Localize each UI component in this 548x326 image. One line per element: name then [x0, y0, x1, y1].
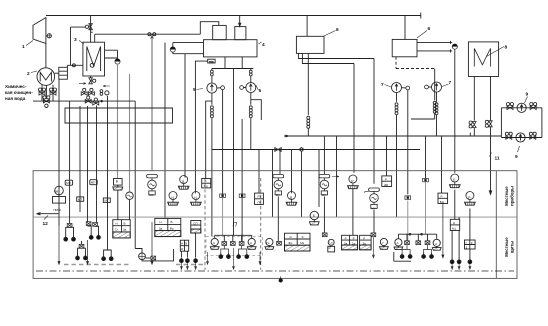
alarm dome G: [380, 238, 389, 249]
wire down from tie-in: [134, 101, 136, 248]
svg-text:Е: Е: [453, 178, 455, 182]
condensate main wire: [284, 133, 501, 138]
circulation pump 9 upper: [501, 107, 542, 109]
svg-text:Lа: Lа: [330, 241, 334, 245]
wire column E: [96, 106, 98, 223]
instrument MT box 2: [103, 198, 110, 202]
svg-text:Местные: Местные: [504, 237, 509, 257]
svg-text:ПМ10: ПМ10: [54, 208, 62, 212]
feed line riser to panel: [151, 34, 154, 171]
svg-text:9: 9: [526, 92, 529, 98]
alarm dome A/B right: [432, 239, 441, 250]
actuator dome 1: [168, 192, 179, 206]
pump 9 loop wires: [501, 108, 542, 138]
tank 6 left overflow riser: [307, 53, 309, 136]
actuator dome 2: [178, 176, 189, 190]
svg-text:В: В: [124, 222, 126, 226]
svg-text:В: В: [290, 196, 292, 200]
wires dropping to panel from pump area: [222, 90, 224, 194]
crossed box a1: [67, 224, 72, 228]
svg-text:Б: Б: [313, 214, 315, 218]
level transmitter tap wires: [165, 43, 185, 219]
svg-text:Зд: Зд: [159, 226, 163, 230]
svg-text:6: 6: [336, 27, 339, 33]
svg-text:В: В: [171, 220, 173, 224]
coil feed wire to panel: [195, 61, 207, 193]
crossed box a3: [93, 223, 98, 227]
svg-text:Мз: Мз: [300, 241, 304, 245]
deaerator vessel 4: [204, 40, 258, 57]
wire header to HX3: [90, 16, 92, 43]
svg-text:МУ: МУ: [371, 207, 375, 211]
HX2 condensate valves: [42, 85, 53, 101]
svg-text:МП: МП: [91, 181, 96, 185]
pump side taps: [221, 86, 225, 90]
connector balls under tree 1: [219, 253, 223, 258]
svg-text:ЧМ: ЧМ: [54, 189, 59, 193]
svg-text:Р: Р: [345, 237, 347, 241]
actuator dome 3: [191, 192, 202, 206]
gray dashed local line: [64, 264, 130, 266]
suction screw valves: [211, 70, 214, 76]
svg-text:РУ: РУ: [258, 195, 262, 199]
svg-text:ДБ: ДБ: [384, 183, 388, 187]
valve on HX3 steam feed: [85, 24, 92, 30]
svg-text:А: А: [397, 241, 399, 245]
wire column A: [58, 79, 60, 226]
svg-text:ная вода: ная вода: [5, 96, 26, 101]
ground mark 10: [279, 276, 282, 282]
svg-text:АЦ: АЦ: [452, 226, 457, 230]
svg-text:5: 5: [259, 88, 262, 94]
drain dashed wire: [396, 68, 435, 70]
svg-text:Зд: Зд: [123, 228, 127, 232]
wire HX3 condensate to panel: [129, 74, 131, 191]
svg-text:Г: Г: [383, 241, 385, 245]
local indicator with cross: [135, 249, 142, 253]
pump 7 discharge squiggles: [396, 93, 398, 218]
circulation pump 9 lower: [501, 137, 542, 139]
indicator table 1: [113, 220, 130, 238]
crossed box a2: [86, 222, 91, 226]
wire column D: [87, 106, 89, 222]
counter box N/AC: [450, 219, 459, 230]
wires dropping into panel: [324, 136, 441, 217]
svg-text:4: 4: [262, 42, 265, 48]
svg-text:G: G: [290, 235, 293, 239]
wire loop from indicator: [142, 249, 174, 261]
svg-text:Р: Р: [205, 179, 207, 183]
alarm tree 1 rail: [215, 235, 252, 241]
wire column C: [79, 106, 81, 212]
svg-text:Р: Р: [363, 237, 365, 241]
wire level gauge down to panel: [117, 64, 119, 178]
svg-text:3: 3: [74, 37, 77, 43]
level gauge of deaerator: [170, 47, 175, 52]
recorder stack ChM42/PM10: [53, 186, 66, 203]
svg-text:Местные: Местные: [504, 186, 509, 206]
pump 5 bypass branches: [206, 100, 262, 178]
alarm dome A/B left: [394, 239, 403, 250]
svg-text:9: 9: [515, 154, 518, 160]
svg-text:1: 1: [22, 44, 25, 50]
svg-text:А: А: [435, 242, 437, 246]
crossed box g3: [371, 233, 376, 237]
wire bend into deaerator head box: [200, 22, 219, 35]
screw valve pair: [100, 90, 103, 96]
tank 6 left: [296, 36, 324, 53]
connector balls row 3: [180, 257, 184, 262]
guard dashed box around alarm group: [206, 237, 263, 256]
condensate pump 7 (left): [392, 83, 402, 93]
svg-text:ПК: ПК: [258, 200, 262, 204]
valve on condensate header: [275, 148, 281, 152]
level indicator with skirt: [113, 179, 123, 191]
junction box with dot 3: [405, 196, 411, 199]
junction box with dot 2: [239, 194, 245, 197]
svg-text:11: 11: [495, 156, 500, 162]
svg-text:12: 12: [43, 221, 49, 227]
steam drop with arrow into head box 2: [239, 16, 241, 27]
actuator dome P: [348, 175, 359, 189]
panel frame: [33, 171, 517, 279]
svg-text:Н: Н: [116, 222, 118, 226]
heat exchanger 2 (with M coil): [37, 68, 55, 86]
svg-text:Р: Р: [468, 196, 470, 200]
HX3 right stubs to level gauge: [105, 50, 118, 59]
level gauge on HX3: [115, 59, 120, 64]
tank 6 right: [392, 39, 417, 56]
wire splits to connector pairs: [66, 227, 74, 237]
cooler 8: [468, 42, 498, 77]
svg-text:ЦТ: ЦТ: [328, 246, 332, 250]
union circles on feed line: [148, 33, 151, 36]
alarm dome A left: [210, 238, 219, 249]
cooler tubes down: [474, 77, 490, 121]
svg-text:МП: МП: [66, 181, 71, 185]
regulator tables 4: [342, 235, 358, 250]
alarm dome A right: [247, 238, 256, 249]
svg-text:Р: Р: [385, 178, 387, 182]
junction box with dot 4: [423, 178, 429, 181]
deaerator head box 1: [213, 25, 227, 39]
panel label column wire: [495, 171, 497, 279]
svg-text:7: 7: [449, 80, 452, 86]
flow table 3: [285, 233, 311, 251]
valve under HX3: [89, 78, 96, 84]
down arrows tree 1: [207, 248, 262, 269]
svg-text:Фр: Фр: [170, 226, 174, 230]
crossed box g1: [277, 241, 282, 245]
transmitter stack 2: [273, 175, 284, 195]
svg-text:Р: Р: [353, 237, 355, 241]
svg-text:7: 7: [381, 82, 384, 88]
down arrows to local line: [58, 226, 60, 264]
wire turbine to HX2: [45, 44, 47, 68]
svg-text:МУ: МУ: [322, 193, 326, 197]
pump discharge squiggles: [211, 93, 213, 236]
svg-text:6: 6: [428, 26, 431, 32]
small indicator box e: [191, 221, 201, 234]
instrument MP box 2: [90, 180, 97, 185]
svg-text:8: 8: [505, 45, 508, 51]
cooler outlet valves: [469, 121, 476, 128]
svg-text:В: В: [116, 179, 118, 183]
svg-text:МУ: МУ: [150, 193, 154, 197]
chemically purified water line: [33, 100, 135, 102]
svg-text:Р: Р: [471, 241, 473, 245]
svg-text:приборы: приборы: [510, 186, 515, 206]
dome B on divider: [310, 211, 320, 225]
svg-text:МТ: МТ: [78, 198, 82, 202]
small cell box f: [180, 240, 188, 251]
svg-text:В: В: [185, 242, 187, 246]
actuator dome X: [465, 192, 476, 206]
crossed box h1: [405, 241, 410, 245]
discharge header wire: [212, 149, 420, 151]
wire 11 into panel with arrow: [489, 136, 491, 194]
svg-text:СП: СП: [193, 221, 197, 225]
flow diamond on header: [299, 148, 304, 152]
svg-text:Зд: Зд: [363, 242, 367, 246]
svg-text:Н: Н: [160, 220, 162, 224]
deaerator outlet manifold: [212, 57, 253, 70]
wire column F: [107, 96, 109, 250]
svg-text:Н: Н: [453, 221, 455, 225]
signal line 12 exiting left: [37, 213, 60, 215]
actuator dome E: [449, 174, 460, 188]
svg-text:Н: Н: [181, 242, 183, 246]
deaerator head box 2: [235, 27, 246, 40]
svg-text:Фр: Фр: [288, 241, 292, 245]
tank 6 left drain wires: [298, 53, 374, 63]
wire continuations below instruments: [118, 189, 455, 242]
local loop wire: [394, 252, 411, 261]
svg-text:А: А: [213, 241, 215, 245]
feed pump 5 (left): [207, 83, 217, 93]
alarm dome Ga: [265, 238, 274, 249]
heating coil symbol: [208, 59, 215, 63]
crossed box h2: [416, 241, 421, 245]
condensate pump 7 (right): [432, 82, 442, 92]
pressure tap circle on turbine outlet: [47, 34, 51, 38]
svg-text:Сг: Сг: [115, 228, 118, 232]
indicator table 2: [155, 218, 181, 236]
wire box to HX3 with union circle: [67, 65, 83, 67]
svg-text:Р: Р: [351, 180, 353, 184]
crossed box near indicator: [151, 256, 156, 260]
instrument MP box 1: [65, 180, 72, 185]
level gauge of tank 6 right: [452, 44, 457, 49]
recirculation loop rectangle: [65, 108, 173, 123]
svg-text:А: А: [250, 241, 252, 245]
connector balls row 2: [76, 255, 80, 260]
dashed separator column 1: [204, 178, 206, 270]
valves cluster at chem water tie-in: [81, 88, 87, 95]
transmitter stack 3: [319, 175, 330, 195]
arrow left: [103, 85, 110, 87]
svg-text:S: S: [302, 235, 304, 239]
regulator box R/DB: [382, 176, 392, 187]
crossed box h3: [425, 241, 430, 245]
small box beside HX2: [59, 67, 68, 79]
main steam header wire: [46, 13, 421, 19]
svg-text:Р: Р: [441, 195, 443, 199]
wire column B: [69, 101, 71, 223]
dashed signal arrow: [332, 176, 339, 178]
alarm tree 2 rail: [398, 234, 436, 241]
svg-text:В: В: [182, 180, 184, 184]
connector balls row 1: [64, 236, 68, 241]
crossed box g2: [322, 233, 327, 237]
svg-text:Сд: Сд: [204, 184, 208, 188]
svg-text:5: 5: [193, 87, 196, 93]
indicator circle La: [328, 239, 335, 252]
wire: turbine tap to deaerator feed line: [46, 34, 200, 42]
transmitter stack 4: [369, 188, 380, 208]
heat exchanger 3: [83, 42, 105, 76]
instrument MT box 1: [77, 197, 84, 201]
panel divider: [33, 216, 517, 218]
svg-text:Химичес-: Химичес-: [5, 84, 27, 89]
svg-text:П: П: [233, 223, 238, 229]
dashed separator column 2: [260, 178, 262, 270]
connector balls under tree 2: [400, 253, 404, 258]
dash-dot boundary line: [36, 270, 514, 272]
svg-text:Га: Га: [267, 241, 270, 245]
svg-text:Зд: Зд: [352, 242, 356, 246]
svg-text:Кг: Кг: [181, 247, 184, 251]
regulator box R/BC: [438, 193, 448, 203]
pump 7 side tap wire to panel: [407, 90, 409, 194]
svg-text:щиты: щиты: [510, 241, 515, 254]
level tap wires to vessel: [173, 43, 204, 54]
svg-text:кая очищен-: кая очищен-: [5, 90, 33, 95]
actuator dome 4: [286, 192, 297, 206]
crossed box t2: [230, 242, 235, 246]
regulator box RU/PK: [255, 193, 264, 204]
junction box with dot 1: [220, 194, 226, 197]
counter columns: [452, 209, 470, 260]
counter box GRZ: [465, 240, 476, 249]
arrow into condensate node: [79, 83, 86, 85]
gauge circle wavy: [126, 192, 133, 199]
svg-text:МТ: МТ: [105, 199, 109, 203]
svg-text:За: За: [344, 242, 348, 246]
crossed box t3: [239, 242, 244, 246]
svg-text:МУ: МУ: [276, 193, 280, 197]
svg-text:2: 2: [27, 71, 30, 77]
tank 6 right taps to level gauge: [417, 41, 452, 53]
crossed box a4: [79, 244, 84, 248]
feed pump 5 (right): [246, 83, 256, 93]
down arrow g3: [372, 237, 374, 258]
down arrow k: [442, 204, 444, 258]
turbine 1: [33, 18, 46, 44]
transmitter stack 1: [147, 175, 158, 195]
crossed box t1: [222, 242, 227, 246]
regulator box R/Sd: [202, 179, 211, 188]
